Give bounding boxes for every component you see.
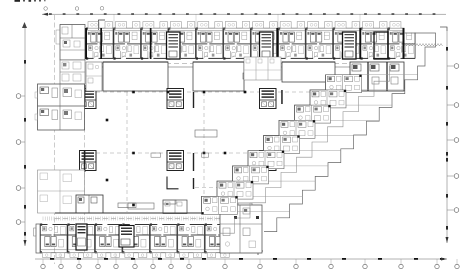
- hall columns: [106, 91, 247, 207]
- bottom dimension line: [35, 251, 459, 269]
- small rooms between banquet rooms: [244, 57, 283, 104]
- stair cores grid: [80, 89, 277, 171]
- stepped terrace outer edge: [264, 33, 436, 232]
- junction stair core left: [76, 224, 87, 250]
- vertical grid ties bottom: [61, 254, 171, 259]
- top dimension line: [42, 7, 446, 31]
- left wing cluster 1: [35, 84, 85, 130]
- hall dashed grid: [96, 64, 330, 212]
- hall bottom wall: [55, 213, 232, 219]
- rooms above bottom band: [76, 195, 176, 213]
- top wing heavy walls / stair units: [85, 28, 405, 59]
- top wing rooms: [86, 22, 415, 60]
- vertical grid line x=84.5: [84, 60, 86, 253]
- left dimension line: [16, 22, 27, 246]
- vertical grid line x=54.5: [54, 15, 56, 264]
- banquet rooms below corridor: [103, 62, 335, 91]
- top-right rooms near steps: [350, 62, 404, 91]
- left wing cluster 2: [38, 170, 85, 213]
- clip band right end: [405, 17, 419, 33]
- rooms beside core column: [86, 62, 102, 91]
- stepped terrace mid line: [219, 66, 390, 233]
- left wing connector rooms: [60, 60, 85, 84]
- bottom wing rooms: [40, 224, 232, 258]
- left edge wall segments: [84, 85, 86, 213]
- right dimension line: [440, 27, 459, 243]
- bottom wing core: [119, 226, 134, 248]
- terrace step divisions: [222, 75, 418, 212]
- top wing corridor: [86, 64, 404, 68]
- bottom wing right section: [220, 205, 262, 253]
- inner stair wall: [202, 75, 326, 212]
- band top trellis ticks: [43, 217, 221, 221]
- hall vents: [118, 128, 298, 208]
- title text fragment: [15, 0, 46, 2]
- bottom wing left cap: [34, 224, 41, 253]
- left end cap rooms: [56, 25, 85, 61]
- zigzag hatch below top band: [405, 44, 443, 47]
- room above band right: [163, 200, 187, 214]
- vertical grid ties top: [114, 15, 360, 61]
- diagonal room clusters: [202, 75, 362, 215]
- hall internal walls: [167, 92, 240, 189]
